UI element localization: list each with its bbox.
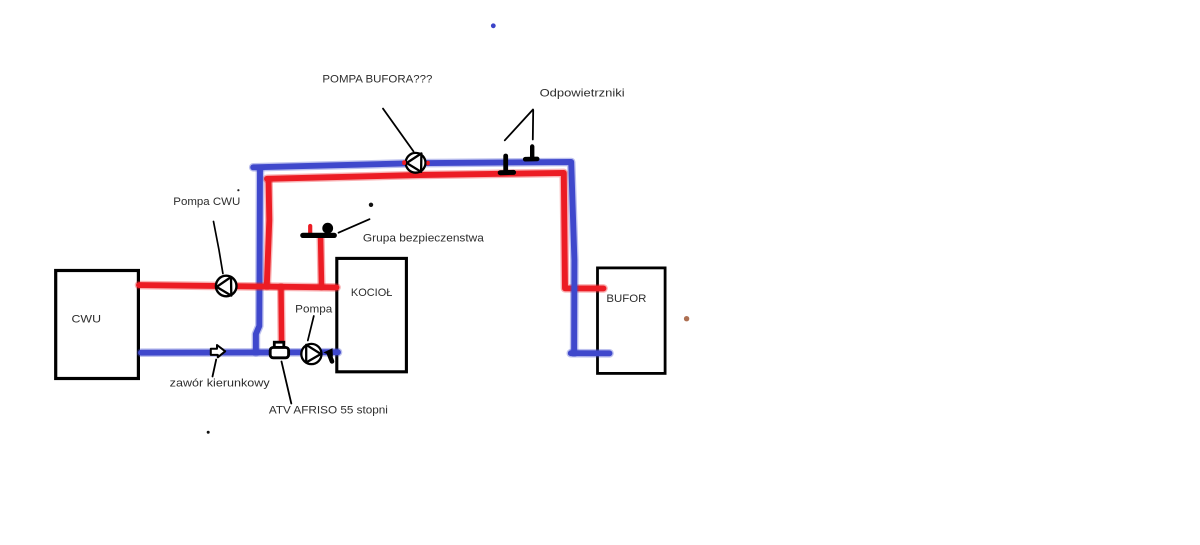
- valve V2: ATV AFRISO 55 stopni thermostatic valve: [270, 342, 288, 358]
- pump U3: Pompa on blue bottom run: [301, 344, 321, 364]
- box: CWU tank: [56, 271, 139, 379]
- svg-text:POMPA BUFORA???: POMPA BUFORA???: [322, 74, 432, 86]
- node: red nub right of buffer pump: [426, 161, 429, 166]
- wire: red supply loop (top run, right drop, stub into BUFOR): [267, 173, 604, 289]
- node: stray blue dot top: [491, 23, 496, 28]
- node: tiny black dot near Pompa CWU label: [237, 189, 239, 191]
- box: KOCIOL boiler: [337, 258, 407, 371]
- pointer line: zawor kierunkowy: [213, 360, 217, 377]
- wire: blue return loop (left drop, top run, right drop, stub into BUFOR): [253, 162, 609, 353]
- pointer line: Odpowietrzniki vertical to vent A2: [532, 110, 534, 140]
- svg-text:Pompa: Pompa: [295, 303, 333, 315]
- pointer line: POMPA BUFORA??? to pump U2: [383, 109, 414, 152]
- pointer line: Pompa to pump U3: [308, 316, 314, 341]
- svg-text:ATV AFRISO 55 stopni: ATV AFRISO 55 stopni: [269, 405, 388, 417]
- node: stray brown dot right of BUFOR: [684, 316, 689, 321]
- pointer line: Pompa CWU to pump U1: [214, 222, 223, 274]
- svg-text:zawór kierunkowy: zawór kierunkowy: [170, 378, 270, 390]
- node: stray black dot above safety group: [369, 203, 373, 207]
- pump U1: Pompa CWU on red run: [216, 276, 237, 297]
- svg-text:CWU: CWU: [72, 313, 102, 325]
- svg-text:BUFOR: BUFOR: [606, 293, 646, 305]
- air vent A2 on blue top run: [525, 147, 537, 160]
- svg-text:KOCIOŁ: KOCIOŁ: [351, 287, 393, 299]
- pump U2: POMPA BUFORA on blue top run: [406, 153, 426, 173]
- box: BUFOR tank: [598, 268, 666, 374]
- pointer line: Grupa bezpieczenstwa: [339, 219, 370, 233]
- wire: red drop from safety group to bottom red run: [317, 238, 326, 287]
- pointer line: ATV AFRISO: [282, 362, 292, 404]
- wire: red bottom run CWU to KOCIOL: [139, 285, 337, 287]
- safety group: red vent tick: [308, 226, 312, 233]
- wire: red stub down to ATV valve: [277, 287, 286, 343]
- svg-text:Grupa bezpieczenstwa: Grupa bezpieczenstwa: [363, 233, 485, 245]
- pointer line: Odpowietrzniki diagonal to vent A1: [505, 110, 533, 141]
- cursor arrow artifact near boiler: [323, 348, 333, 361]
- valve V1: zawor kierunkowy (white arrow): [211, 345, 225, 357]
- air vent A1 on red top run: [500, 156, 513, 173]
- node: red nub left of buffer pump: [402, 160, 406, 165]
- wire: blue bottom run CWU to KOCIOL: [141, 348, 338, 357]
- node: tiny black dot bottom left: [207, 431, 210, 434]
- safety group: black ball: [322, 223, 333, 234]
- svg-text:Odpowietrzniki: Odpowietrzniki: [540, 87, 625, 99]
- safety group: black bar (Grupa bezpieczenstwa): [303, 233, 335, 238]
- svg-text:Pompa CWU: Pompa CWU: [173, 196, 240, 208]
